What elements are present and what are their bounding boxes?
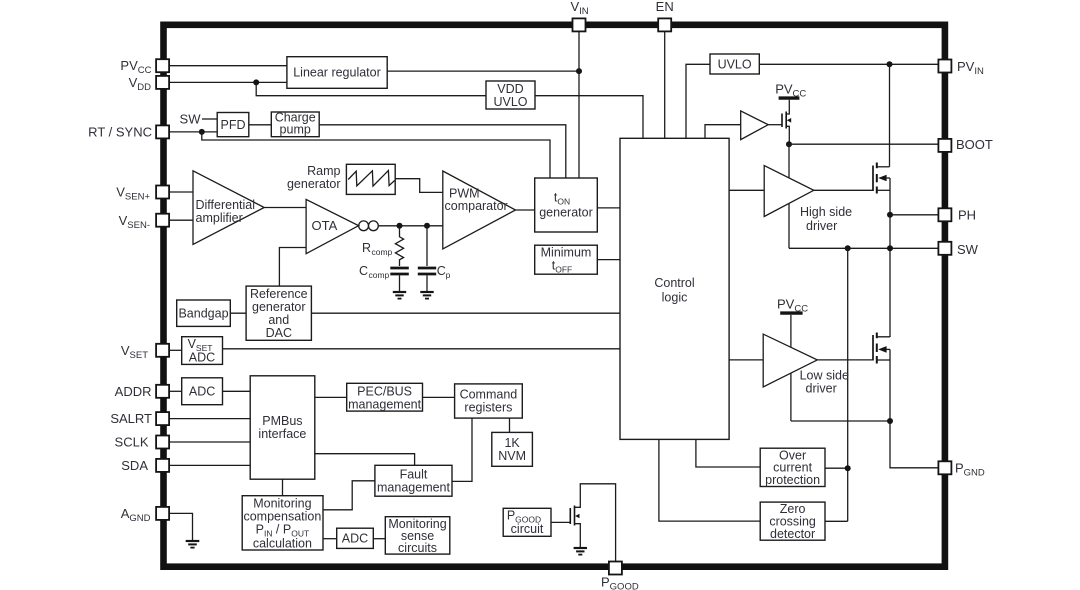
svg-text:management: management [377, 480, 450, 494]
wire SDA pin to PMBus interface [170, 464, 250, 466]
pin VIN top [571, 0, 589, 31]
node low side return junction [887, 418, 893, 424]
svg-text:ADC: ADC [189, 350, 215, 364]
svg-text:circuits: circuits [398, 541, 437, 555]
wire Bandgap to reference generator [230, 312, 246, 314]
svg-text:generator: generator [252, 300, 306, 314]
wire PVCC bar to bootstrap MOSFET drain [786, 100, 789, 114]
wire PGOOD circuit to MOSFET gate [551, 521, 570, 523]
svg-text:PH: PH [958, 208, 976, 223]
comparator PWM [443, 171, 516, 249]
pin SDA [121, 458, 169, 473]
wire high side driver to MOSFET gate [814, 189, 873, 191]
pin ADDR [115, 384, 169, 399]
pin PH right [938, 208, 976, 223]
pin PGOOD bottom [601, 562, 639, 590]
svg-text:comp: comp [372, 247, 393, 257]
block VSET ADC [182, 337, 223, 365]
wire ADC to PMBus interface [223, 390, 251, 392]
wire PFD to Charge pump [249, 124, 271, 126]
wire control logic to zero crossing detector [659, 439, 760, 521]
svg-text:PFD: PFD [221, 118, 246, 132]
wire PMBus interface to PEC/BUS management [315, 396, 347, 398]
svg-text:p: p [446, 270, 451, 280]
transistor high side MOSFET [873, 163, 890, 194]
svg-text:detector: detector [770, 527, 815, 541]
wire PEC/BUS management to Command registers [423, 396, 455, 398]
pin VSEN+ [116, 185, 169, 203]
svg-text:SCLK: SCLK [115, 435, 149, 450]
wire UVLO to PVIN pin [759, 63, 938, 65]
wire tON generator to control logic [597, 207, 620, 209]
wire high side source rail down to low side drain [889, 178, 891, 337]
block 1K NVM [492, 432, 533, 466]
svg-text:ADDR: ADDR [115, 384, 152, 399]
svg-text:Monitoring: Monitoring [253, 497, 311, 511]
svg-text:SALRT: SALRT [110, 411, 152, 426]
wire VIN pin down to tON generator [578, 32, 580, 179]
svg-text:NVM: NVM [498, 449, 526, 463]
pin EN top [656, 0, 674, 31]
pin PVCC [120, 58, 169, 76]
wire SALRT pin to PMBus interface [170, 418, 250, 420]
label PVCC bootstrap supply [775, 82, 806, 100]
pin VSEN- [119, 213, 169, 231]
block Charge pump [271, 111, 319, 137]
op-amp differential amplifier [193, 171, 264, 245]
amplifier high side driver [764, 166, 852, 234]
block Monitoring sense circuits [385, 517, 450, 556]
block PMBus interface [250, 376, 315, 479]
block PEC/BUS management [347, 383, 423, 411]
wire VDD node to VDD UVLO [256, 82, 486, 95]
buffer bootstrap driver [741, 111, 769, 140]
wire PVIN rail down to high side MOSFET drain [889, 64, 891, 167]
svg-text:DAC: DAC [266, 326, 292, 340]
wire differential amplifier to OTA [264, 207, 306, 209]
wire reference generator to OTA [279, 248, 306, 287]
svg-text:Linear regulator: Linear regulator [293, 66, 381, 80]
pin AGND [121, 506, 169, 524]
node on VIN rail [576, 68, 582, 74]
wire Monitoring compensation to ADC [323, 538, 337, 540]
pin SCLK [115, 435, 170, 450]
block Fault management [375, 465, 452, 496]
wire AGND pin to ground [170, 513, 193, 541]
wire over current protection to SW sense line [825, 467, 848, 469]
wire UVLO to control logic [686, 64, 710, 138]
svg-text:Reference: Reference [250, 287, 308, 301]
svg-text:SDA: SDA [121, 458, 148, 473]
svg-text:comparator: comparator [445, 199, 508, 213]
svg-text:UVLO: UVLO [493, 95, 527, 109]
svg-text:compensation: compensation [243, 510, 321, 524]
block Control logic [620, 138, 729, 439]
svg-text:interface: interface [258, 427, 306, 441]
wire zero crossing detector to SW sense line [825, 520, 848, 522]
svg-text:management: management [348, 397, 421, 411]
wire VSET ADC to control logic [223, 348, 621, 350]
pin VSET [121, 343, 169, 361]
svg-text:Bandgap: Bandgap [178, 306, 228, 320]
wire control logic to high side driver [729, 189, 764, 191]
wire ADC to Monitoring sense circuits [373, 538, 385, 540]
block Command registers [455, 384, 523, 418]
svg-text:RT / SYNC: RT / SYNC [88, 125, 152, 140]
block Over current protection [760, 448, 825, 487]
block PFD [217, 113, 249, 137]
wire BOOT rail to BOOT pin [789, 143, 938, 145]
svg-text:registers: registers [464, 401, 512, 415]
wire Command registers to Fault management [452, 418, 472, 481]
node BOOT rail [786, 141, 792, 147]
block PGOOD circuit [503, 508, 551, 536]
resistor Rcomp [362, 226, 404, 266]
svg-text:Control: Control [654, 276, 694, 290]
wire Linear regulator output to VIN rail [387, 70, 579, 72]
pin SALRT [110, 411, 169, 426]
supply bar PVCC low side [780, 311, 802, 314]
supply bar PVCC bootstrap [779, 96, 800, 99]
block ramp generator sawtooth [346, 164, 395, 194]
ground under Ccomp [393, 292, 406, 299]
pin SW right [938, 242, 978, 257]
svg-text:ADC: ADC [342, 532, 368, 546]
node compensation Cp [424, 223, 430, 229]
wire Command registers to 1K NVM [509, 418, 511, 432]
svg-text:Ramp: Ramp [307, 164, 340, 178]
label PVCC low side supply [777, 297, 808, 315]
svg-text:amplifier: amplifier [196, 211, 243, 225]
wire OTA output to PWM comparator [378, 225, 443, 227]
wire PMBus interface to Fault management [315, 454, 415, 466]
capacitor Cp [418, 226, 451, 292]
svg-text:VDD: VDD [497, 82, 523, 96]
node SW junction right [887, 245, 893, 251]
wire control logic to bootstrap buffer [705, 125, 741, 139]
wire PMBus interface to Monitoring compensation [282, 479, 284, 496]
wire SW line [789, 247, 938, 249]
pin BOOT right [938, 137, 992, 152]
wire VDD pin to Linear regulator [170, 81, 287, 83]
svg-text:Command: Command [460, 388, 518, 402]
svg-text:1K: 1K [504, 436, 520, 450]
svg-text:Fault: Fault [400, 467, 428, 481]
transistor low side MOSFET [873, 333, 890, 364]
block UVLO [710, 54, 759, 74]
svg-text:UVLO: UVLO [718, 57, 752, 71]
block VDD UVLO [486, 81, 535, 109]
wire PVCC bar to low side driver [790, 315, 792, 421]
svg-text:driver: driver [806, 382, 837, 396]
block ADC (address) [182, 378, 223, 405]
svg-text:comp: comp [369, 270, 390, 280]
op-amp OTA [306, 199, 359, 253]
svg-text:SW: SW [957, 242, 979, 257]
svg-text:Minimum: Minimum [541, 246, 592, 260]
label SW [180, 112, 202, 127]
wire RT/SYNC pin to PFD [170, 131, 217, 133]
wire BOOT rail down through high side driver to SW [788, 144, 790, 248]
wire Minimum tOFF to control logic [597, 259, 620, 261]
svg-text:BOOT: BOOT [956, 137, 993, 152]
wire VSEN+ pin to differential amplifier [170, 191, 193, 193]
wire ADDR pin to ADC [170, 390, 182, 392]
svg-text:logic: logic [662, 291, 688, 305]
current mirror output circles [359, 221, 379, 231]
svg-text:driver: driver [806, 219, 837, 233]
wire Monitoring compensation to Fault management [323, 481, 375, 510]
node on VDD line [253, 79, 259, 85]
pin RT/SYNC [88, 125, 169, 140]
wire SW input to PFD [202, 118, 217, 120]
svg-text:OTA: OTA [312, 218, 338, 233]
svg-text:C: C [437, 264, 446, 278]
node on RT/SYNC line [199, 129, 205, 135]
svg-text:generator: generator [539, 206, 593, 220]
block Bandgap [177, 300, 231, 326]
block ADC (monitoring) [337, 528, 374, 548]
svg-text:Low side: Low side [800, 369, 849, 383]
wire control logic to over current protection [696, 439, 760, 467]
block tON generator [535, 178, 598, 232]
svg-text:pump: pump [280, 123, 311, 137]
wire VSET pin to VSET ADC [170, 349, 182, 351]
svg-text:circuit: circuit [511, 522, 544, 536]
svg-text:generator: generator [287, 177, 341, 191]
wire EN pin down to control logic [664, 32, 666, 139]
wire PH junction to PH pin [890, 214, 938, 216]
node PH junction [887, 212, 893, 218]
wire SW sense line down to protection blocks [847, 248, 849, 521]
wire VSEN- pin to differential amplifier [170, 219, 193, 221]
wire low side source rail down to PGND pin [890, 349, 938, 467]
svg-text:Differential: Differential [196, 198, 256, 212]
block Reference generator and DAC [246, 286, 311, 340]
ground under PGOOD MOSFET [574, 548, 587, 555]
transistor bootstrap switch [782, 112, 791, 145]
IC outer boundary frame [164, 25, 945, 567]
amplifier low side driver [763, 334, 849, 395]
ground AGND [186, 541, 200, 548]
capacitor Ccomp [359, 264, 409, 292]
node PVIN rail [887, 61, 893, 67]
node compensation Rcomp [397, 223, 403, 229]
wire RT/SYNC node to tON generator [202, 132, 550, 178]
wire SCLK pin to PMBus interface [170, 441, 250, 443]
node SW junction left [845, 245, 851, 251]
svg-text:EN: EN [656, 0, 674, 14]
svg-text:calculation: calculation [253, 537, 312, 551]
pin PGND right [938, 460, 985, 478]
svg-text:PMBus: PMBus [262, 414, 302, 428]
pin PVIN right [938, 59, 984, 77]
block Monitoring compensation PIN/POUT calculation [242, 496, 323, 551]
pin VDD [129, 75, 170, 93]
svg-text:SW: SW [180, 112, 202, 127]
block Linear regulator [287, 57, 387, 89]
wire control logic to low side driver [729, 359, 763, 361]
wire low side driver to MOSFET gate [817, 359, 873, 361]
label Ramp generator [287, 164, 341, 191]
wire ramp generator to PWM comparator [395, 179, 443, 193]
wire low side driver return [791, 420, 890, 422]
wire buffer to bootstrap MOSFET gate [768, 124, 782, 126]
svg-text:C: C [359, 264, 368, 278]
wire PWM comparator to tON generator [516, 209, 535, 211]
wire PVCC pin to Linear regulator [170, 65, 287, 67]
block Minimum tOFF [535, 245, 598, 274]
wire Charge pump to tON generator [319, 125, 566, 178]
svg-text:and: and [268, 313, 289, 327]
wire VDD UVLO output to control logic [535, 96, 643, 139]
node over current sense junction [845, 465, 851, 471]
svg-text:protection: protection [765, 473, 820, 487]
ground under Cp [420, 292, 433, 299]
svg-text:ADC: ADC [189, 385, 215, 399]
svg-text:R: R [362, 241, 371, 255]
transistor PGOOD open drain [570, 484, 615, 562]
svg-text:PEC/BUS: PEC/BUS [357, 384, 412, 398]
wire reference generator to control logic [311, 312, 620, 314]
svg-text:High side: High side [800, 205, 852, 219]
block Zero crossing detector [760, 502, 825, 541]
